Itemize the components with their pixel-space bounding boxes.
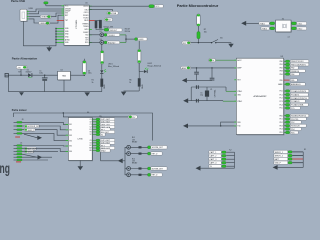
net label USBDM — [39, 22, 50, 25]
pad module left2 — [270, 27, 275, 30]
net label Vusb — [107, 11, 118, 15]
junction dot C1 — [44, 75, 45, 76]
resistor R6 — [138, 63, 141, 91]
net label AREF/ADC6 — [290, 83, 305, 86]
net label RXLED — [107, 41, 120, 45]
crystal X1 — [205, 87, 209, 101]
net label PD4 — [290, 128, 301, 131]
pad PB2 — [286, 67, 290, 69]
wire stub MCU pin PC1/ADC1 — [284, 94, 286, 96]
svg-text:Partie USB: Partie USB — [11, 0, 25, 3]
svg-text:VCC: VCC — [155, 6, 160, 8]
svg-text:E1: E1 — [90, 129, 92, 131]
svg-text:D3: D3 — [100, 39, 102, 41]
net label EN_2 — [100, 144, 110, 148]
svg-text:IN3: IN3 — [69, 135, 72, 137]
svg-text:SENS_1: SENS_1 — [27, 130, 34, 132]
diode relay row — [139, 167, 142, 169]
svg-text:OSCO: OSCO — [84, 12, 89, 14]
net label OUT1_MOT — [100, 118, 115, 122]
svg-text:K1: K1 — [304, 149, 306, 151]
pad OUT1_MOT — [96, 118, 100, 120]
wire serial to MCU — [188, 125, 236, 127]
green wire AVCC to MCU — [216, 59, 237, 61]
wire K1 bus — [302, 152, 304, 168]
pad J4 pin5 — [14, 156, 17, 158]
net label relay row — [151, 173, 162, 177]
transistor Q3 — [127, 167, 131, 171]
wire K2 row2 — [226, 155, 234, 157]
wire U4 pin V2 — [92, 134, 96, 136]
green wire from RXLED — [120, 41, 126, 43]
wire AREF to MCU — [191, 67, 237, 69]
net flag RESET vertical — [197, 26, 200, 43]
wire U4 pin SENS_MOT — [92, 147, 96, 149]
net label J3 row3 — [25, 128, 36, 131]
wire relay row — [131, 174, 148, 176]
pad J4 pin3 — [14, 150, 17, 152]
svg-text:O3: O3 — [89, 140, 91, 142]
terminal arrow serial — [183, 124, 188, 129]
svg-text:PC5: PC5 — [279, 108, 282, 110]
net label V2 — [100, 133, 105, 137]
net label module out1 — [297, 22, 307, 26]
svg-text:ATMEGA328P: ATMEGA328P — [254, 95, 268, 98]
svg-text:O1: O1 — [89, 119, 91, 121]
svg-text:IN1: IN1 — [69, 124, 72, 126]
svg-text:ng: ng — [0, 162, 10, 176]
resistor R3 — [99, 20, 102, 29]
pad module right1 — [292, 22, 297, 25]
wire IC1 TXD to LED D2 — [89, 34, 100, 36]
svg-text:VUSB: VUSB — [111, 13, 117, 15]
svg-text:PC4: PC4 — [279, 104, 282, 106]
wire stub MCU pin PB0/ICP1/CLKO — [284, 60, 286, 62]
wire U4 pin GND2 — [92, 150, 96, 152]
wire J4 row3 — [22, 150, 58, 152]
net label AREF — [181, 66, 191, 70]
svg-text:PD4: PD4 — [291, 129, 294, 131]
svg-text:1k: 1k — [92, 82, 94, 84]
net label PC5 — [290, 107, 300, 110]
led LED1 — [100, 64, 106, 73]
svg-text:V2: V2 — [90, 134, 92, 136]
wire stub MCU pin PD0/RXD/PCINT16 — [284, 115, 286, 117]
svg-text:XTAL2: XTAL2 — [262, 27, 267, 30]
pad OUT2_MOT — [96, 121, 100, 123]
wire U4 ground — [79, 160, 81, 166]
led D3 RX — [100, 39, 104, 44]
svg-text:TXDEN: TXDEN — [83, 26, 89, 28]
svg-text:RTS: RTS — [85, 38, 88, 40]
capacitor C2 chain — [100, 51, 103, 65]
wire regulator ground — [63, 80, 65, 92]
pin stubs of J2 — [27, 12, 29, 19]
net label relay row — [151, 152, 162, 156]
IC1 pin stubs green right — [89, 6, 92, 42]
svg-text:PB0: PB0 — [280, 61, 283, 63]
wire J3 pin1 to U4 — [22, 122, 68, 124]
wire J3 pin2 to U4 — [22, 126, 68, 130]
terminal arrow J3 — [37, 136, 42, 140]
resistor values text — [125, 29, 131, 33]
svg-text:22p: 22p — [200, 95, 203, 97]
transistor Q2 — [127, 152, 131, 156]
svg-text:3V3: 3V3 — [65, 13, 68, 15]
pad PB1/OC1A/PCINT1 — [286, 63, 290, 65]
svg-text:USB: USB — [29, 8, 34, 10]
module X2 oscillator — [276, 20, 292, 32]
pad CAPT_DRT — [96, 123, 100, 125]
wire K2 row4 — [226, 162, 234, 164]
pad relay row — [148, 173, 151, 176]
svg-text:PB1/OC1A/PCINT1: PB1/OC1A/PCINT1 — [291, 63, 306, 66]
svg-text:TST: TST — [65, 20, 68, 22]
svg-text:7805: 7805 — [62, 76, 66, 78]
svg-text:Voltage_3V3: Voltage_3V3 — [104, 25, 114, 28]
pad K1 row1 — [288, 151, 292, 153]
wire jack negative — [7, 75, 9, 91]
wire stub MCU pin PD5 — [284, 132, 286, 134]
label RL1 — [132, 137, 138, 143]
wire J4 row6 — [22, 159, 48, 161]
red wire MCU pin PB5 — [284, 79, 290, 81]
pad relay row — [148, 167, 151, 170]
wire label to rail — [20, 69, 22, 75]
svg-text:U1: U1 — [85, 2, 87, 4]
junction dot led nets — [125, 38, 126, 39]
wire relay left bus — [125, 147, 127, 153]
net label pullup — [105, 18, 113, 21]
svg-text:Partie Alimentation: Partie Alimentation — [12, 56, 38, 60]
net label PC4/ADC4/SDA — [290, 103, 308, 106]
svg-text:GND2: GND2 — [101, 150, 106, 152]
wire label D+ to IC1 — [51, 13, 64, 17]
ground U4 — [78, 166, 84, 170]
svg-text:J3: J3 — [22, 119, 24, 121]
svg-text:RXLED: RXLED — [83, 15, 89, 17]
svg-text:OSC2: OSC2 — [297, 28, 302, 30]
wire relay row — [131, 153, 148, 155]
wire arrow to module — [246, 22, 270, 24]
wire stub MCU pin PB2 — [284, 67, 286, 69]
wire joiner of led nets — [125, 35, 127, 43]
svg-text:SENS_2: SENS_2 — [27, 152, 34, 154]
net label PC0/ADC0/PCINT8 — [290, 90, 309, 93]
svg-text:PC0/ADC0/PCINT8: PC0/ADC0/PCINT8 — [291, 90, 306, 93]
svg-text:OSC1: OSC1 — [297, 23, 302, 25]
net label relay row — [151, 146, 167, 150]
svg-text:K2: K2 — [229, 149, 231, 151]
pad V2 — [96, 133, 100, 135]
resistor R2 — [95, 21, 98, 28]
capacitor C8 — [210, 68, 215, 81]
svg-text:L293D: L293D — [78, 139, 84, 141]
wire K1 row1 — [292, 151, 303, 153]
wire K2 bottom — [201, 167, 235, 169]
svg-text:B1: B1 — [220, 37, 222, 39]
svg-text:Partie moteur: Partie moteur — [12, 108, 28, 112]
net label VCC_MOT — [100, 130, 115, 134]
wire caps to ground arrow — [187, 79, 212, 81]
wire K1 row3 — [292, 158, 303, 160]
net label PC1/ADC1 — [290, 93, 308, 96]
diode relay row — [139, 146, 142, 148]
label D1 — [26, 70, 32, 74]
svg-text:4k7: 4k7 — [108, 19, 111, 21]
op-amp U3 ATMEGA328P MCU box — [236, 58, 284, 135]
U4 left pin names — [69, 124, 72, 153]
pad PC5 — [286, 107, 290, 109]
MCU left pin stubs — [234, 60, 236, 126]
regulator U2 7805 — [58, 71, 72, 80]
pin names IC1 right — [83, 6, 89, 44]
svg-text:c4: c4 — [288, 36, 290, 38]
wire reset row — [191, 42, 212, 44]
wire diode to regulator — [32, 74, 57, 76]
svg-text:GND: GND — [142, 84, 144, 89]
pad OUT3_MOT — [96, 139, 100, 141]
net label K1 row1 — [274, 150, 288, 154]
pad K2 row5 — [222, 165, 226, 167]
svg-text:RST: RST — [65, 15, 68, 17]
capacitor C7 — [194, 68, 199, 81]
pad J3 pin4 — [14, 132, 17, 134]
net label module in1 — [259, 22, 269, 26]
label C3 — [88, 70, 92, 74]
label RL2 — [132, 158, 138, 164]
ground led2 — [121, 92, 126, 96]
svg-text:R5 10k: R5 10k — [125, 31, 131, 33]
pad J3 pin3 — [14, 129, 17, 131]
wire J3 pin3 to U4 — [22, 130, 68, 136]
green wire from TXLED — [120, 34, 126, 36]
U4 left pin stubs — [66, 124, 69, 151]
pad AREF/ADC6 — [286, 83, 290, 85]
terminal arrow xtal module — [241, 21, 246, 26]
label R1 — [92, 80, 94, 84]
svg-text:PD4: PD4 — [279, 129, 282, 131]
pad after D3 — [104, 41, 107, 44]
pad CAPT_GCH — [96, 126, 100, 128]
net label GND2 — [100, 149, 110, 153]
svg-text:Partie Microcontroleur: Partie Microcontroleur — [177, 4, 219, 8]
svg-text:CBUS: CBUS — [84, 20, 88, 22]
net label PB0/ICP1/CLKO — [290, 60, 309, 63]
net label PB5 — [290, 79, 297, 82]
net flag CTS — [135, 37, 147, 41]
net label PB2 — [290, 66, 298, 69]
wire resistor bottoms join — [96, 28, 104, 29]
svg-text:Bleu_320mcd: Bleu_320mcd — [108, 66, 119, 68]
pin names IC1 left — [65, 6, 71, 45]
wire supply T1 — [14, 113, 153, 141]
power terminal +5V — [44, 2, 48, 6]
net label K2 row5 — [209, 165, 222, 169]
pad module left1 — [270, 22, 275, 25]
terminal arrow J4 — [38, 155, 43, 159]
svg-text:PC2: PC2 — [279, 98, 282, 100]
diode D1 — [28, 73, 32, 77]
wire stub MCU pin PC5 — [284, 107, 286, 109]
capacitor C4 chain — [138, 49, 141, 63]
wire USB pin4 to label D- — [29, 19, 39, 23]
svg-text:PD2: PD2 — [291, 122, 294, 124]
net label K2 row2 — [209, 154, 222, 158]
wire led2 chain top — [138, 41, 140, 50]
pad PD2 — [286, 121, 290, 123]
net label J1 9V — [16, 66, 27, 70]
pad K2 row4 — [222, 162, 226, 164]
pad PD1/TXD — [286, 118, 290, 120]
svg-text:RELAY: RELAY — [132, 141, 138, 144]
svg-text:C2: C2 — [90, 127, 92, 129]
svg-text:RET_D: RET_D — [152, 175, 159, 177]
pad GND2 — [96, 149, 100, 151]
junction dot cap A — [196, 67, 197, 68]
wire stub MCU pin PC0/ADC0/PCINT8 — [284, 90, 286, 92]
wire led1 chain top — [101, 44, 103, 50]
ground below IC1 — [46, 47, 52, 51]
svg-text:PD0/RXD/PCINT16: PD0/RXD/PCINT16 — [291, 116, 306, 118]
label C5 C6 — [200, 93, 203, 97]
ground alim left — [19, 92, 24, 96]
wire USB pin1 to IC1 — [29, 9, 64, 12]
svg-text:VCCIO: VCCIO — [83, 6, 89, 8]
wire U4 pin OUT4_MOT — [92, 142, 96, 144]
net label K1 row3 — [274, 157, 288, 161]
wire button to ground — [216, 43, 231, 44]
MCU left pin names — [237, 59, 242, 128]
resistor R7 pullup — [197, 14, 201, 26]
pad J4 pin4 — [14, 153, 17, 155]
svg-text:PB4: PB4 — [280, 74, 283, 76]
svg-text:C1: C1 — [90, 124, 92, 126]
net flag VCC top — [149, 5, 163, 9]
wire J2 shield to ground — [23, 21, 49, 46]
terminal arrow K1 — [273, 165, 278, 170]
IC1 pin stubs green left — [62, 6, 65, 15]
wire U4 to relays — [101, 152, 123, 161]
svg-text:TXLED: TXLED — [83, 17, 89, 19]
svg-text:OSCI: OSCI — [84, 9, 88, 11]
wire IC1 RXD to LED D3 — [89, 41, 100, 43]
wire stub MCU pin PD3/OC2B — [284, 125, 286, 127]
svg-text:O2: O2 — [89, 121, 91, 123]
net label J3 row2 — [25, 125, 41, 128]
net label PC3/ADC3 — [290, 100, 305, 103]
pad PB3/MOSI — [286, 70, 290, 72]
wire ground rail — [8, 91, 101, 93]
wire USB pin2 to IC1 — [29, 11, 64, 14]
button B1 — [211, 37, 223, 43]
svg-text:RET_D: RET_D — [152, 154, 159, 156]
net flag 3V3 — [104, 28, 122, 32]
wire stub MCU pin PC2/ADC2/PCINT10 — [284, 97, 286, 99]
pad OUT4_MOT — [96, 142, 100, 144]
junction dot C3 — [84, 75, 85, 76]
svg-text:MOTEUR_DRT: MOTEUR_DRT — [27, 126, 40, 128]
wire K2 row1 — [226, 151, 234, 153]
wire ground segment led2 — [124, 90, 140, 92]
red wire TEST pin of IC1 — [57, 19, 64, 21]
led D2 TX — [100, 31, 104, 36]
terminal arrow xtal ground — [183, 98, 188, 103]
net label PD1/TXD — [290, 117, 306, 120]
svg-text:U3: U3 — [281, 56, 283, 58]
svg-text:3V3OUT: 3V3OUT — [110, 30, 118, 32]
net label PB1/OC1A/PCINT1 — [290, 63, 309, 66]
wire label D- to IC1 — [50, 15, 64, 23]
net label module in2 — [261, 27, 269, 31]
wire K2 row3 — [226, 158, 234, 160]
wire VCC to IC1 — [46, 5, 64, 7]
wire xtal bottom rail — [188, 100, 223, 102]
net label PD0/RXD/PCINT16 — [290, 114, 309, 117]
IC1 lower left pins with dots and bus — [49, 28, 64, 48]
wire U4 pin EN_2 — [92, 144, 96, 146]
svg-text:VS: VS — [89, 132, 91, 134]
pad K1 row2 — [288, 154, 292, 156]
net label OUT3_MOT — [100, 139, 115, 143]
svg-text:PC5: PC5 — [291, 108, 294, 110]
label R7 — [204, 29, 207, 33]
svg-text:PB4: PB4 — [291, 74, 294, 76]
wire K1 row4 — [292, 162, 303, 164]
svg-text:IN6: IN6 — [69, 151, 72, 153]
wire J4 to arrow — [22, 154, 37, 157]
svg-text:GND: GND — [104, 84, 106, 89]
net label PD3/OC2B — [290, 124, 306, 127]
net label USBDP — [40, 15, 51, 18]
net label TXLED — [107, 33, 120, 37]
svg-text:GN: GN — [89, 150, 91, 152]
svg-text:1N4007: 1N4007 — [26, 72, 32, 74]
wire supply T2 — [63, 113, 128, 117]
svg-text:PC1: PC1 — [279, 94, 282, 96]
svg-text:PD2: PD2 — [279, 122, 282, 124]
wire K2 row5 — [226, 165, 234, 167]
net label K1 row2 — [274, 154, 288, 158]
svg-text:V2: V2 — [101, 134, 103, 136]
wire USB pin3 to label D+ — [29, 15, 41, 17]
svg-text:PB2: PB2 — [280, 67, 283, 69]
wire xtal top rail — [191, 86, 226, 88]
wire stub MCU pin PB4 — [284, 73, 286, 75]
wire stub MCU pin PD4 — [284, 128, 286, 130]
wire K1 bottom — [278, 166, 304, 168]
svg-text:SORTIE_DRT: SORTIE_DRT — [152, 168, 164, 170]
wire U4 pin VCC_MOT — [92, 131, 96, 133]
wire stub MCU pin PC3/ADC3 — [284, 100, 286, 102]
terminal arrow K2 — [196, 166, 201, 171]
pad J4 pin6 — [14, 159, 17, 161]
svg-text:PC3/ADC3: PC3/ADC3 — [291, 100, 299, 103]
svg-text:RELAY: RELAY — [132, 162, 138, 165]
svg-text:TXLED#: TXLED# — [108, 35, 116, 37]
net label relay row — [151, 167, 167, 171]
svg-text:CAPT_2: CAPT_2 — [210, 155, 217, 158]
net label J4 row2 — [25, 147, 38, 150]
wire xtal left vertical — [190, 87, 192, 101]
pad PD0/RXD/PCINT16 — [286, 114, 290, 116]
transistor Q4 — [127, 173, 131, 177]
svg-text:PD0: PD0 — [279, 115, 282, 117]
label LED1 — [108, 63, 119, 68]
pad PD3/OC2B — [286, 125, 290, 127]
wire U4 pin CAPT_DRT — [92, 123, 96, 125]
junction dot reset — [198, 42, 199, 43]
